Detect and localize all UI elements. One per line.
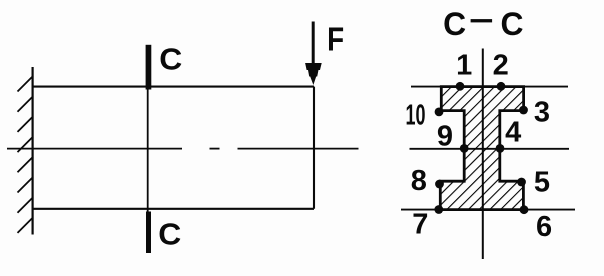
- section vertical centerline: [482, 49, 484, 260]
- section middle reference line: [410, 148, 570, 150]
- svg-text:5: 5: [534, 167, 550, 199]
- point 5: [517, 178, 526, 187]
- section bottom reference line: [401, 209, 575, 211]
- point 6: [520, 205, 529, 214]
- point 9: [460, 144, 469, 153]
- point 7: [434, 205, 443, 214]
- cross-section outline with hatching: [440, 87, 523, 210]
- svg-text:4: 4: [505, 117, 521, 149]
- wall support hatching: [18, 76, 34, 233]
- svg-text:9: 9: [437, 120, 453, 152]
- svg-text:C: C: [159, 41, 182, 76]
- point 2: [497, 82, 506, 91]
- section line C-C: [147, 60, 149, 240]
- svg-text:F: F: [327, 21, 344, 58]
- svg-text:7: 7: [412, 208, 428, 240]
- section mark bottom bar: [146, 212, 151, 254]
- beam outline: [32, 87, 315, 209]
- svg-text:6: 6: [536, 211, 552, 243]
- point 1: [456, 82, 465, 91]
- section top reference line: [411, 86, 568, 88]
- point 10: [435, 108, 444, 117]
- point 8: [435, 180, 444, 189]
- beam centerline (dash-dot axis): [7, 148, 359, 150]
- svg-text:2: 2: [493, 49, 509, 81]
- force F arrow: [312, 22, 315, 69]
- svg-text:3: 3: [534, 97, 550, 129]
- svg-text:10: 10: [406, 100, 426, 132]
- section mark top bar: [146, 45, 152, 90]
- point 3: [519, 106, 528, 115]
- svg-text:8: 8: [411, 165, 427, 197]
- svg-text:1: 1: [456, 49, 472, 81]
- svg-text:C: C: [443, 6, 466, 42]
- svg-text:C: C: [501, 6, 524, 42]
- svg-text:C: C: [158, 216, 181, 251]
- wall line: [31, 67, 33, 235]
- point 4: [496, 144, 505, 153]
